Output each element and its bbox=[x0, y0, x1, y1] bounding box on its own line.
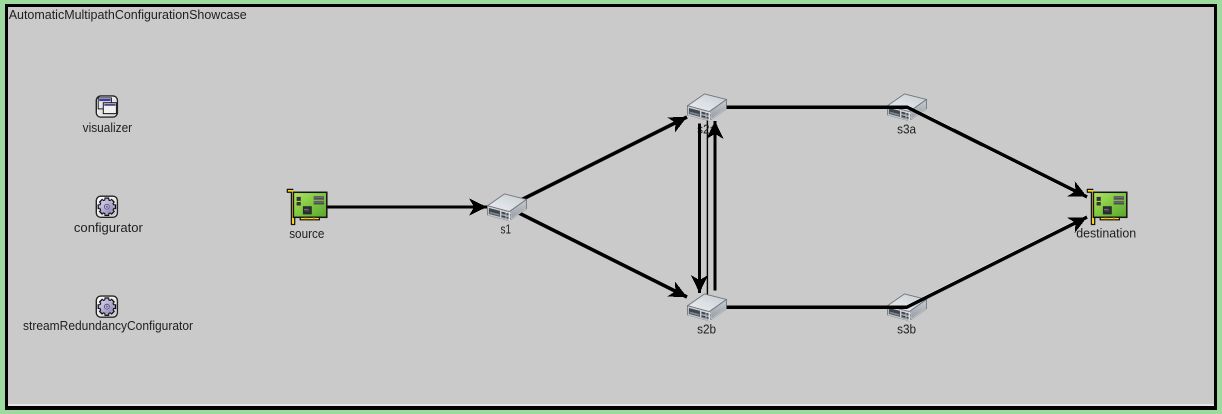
switch s3b (drawn under path lines) bbox=[888, 294, 927, 321]
svg-text:streamRedundancyConfigurator: streamRedundancyConfigurator bbox=[23, 319, 193, 333]
switch s2b bbox=[688, 294, 727, 321]
svg-text:destination: destination bbox=[1076, 227, 1136, 241]
arrow s1 to s2b bbox=[507, 207, 687, 297]
svg-text:configurator: configurator bbox=[74, 221, 143, 235]
switch s1 bbox=[488, 194, 527, 221]
arrow source to s1 bbox=[307, 205, 487, 208]
svg-text:s1: s1 bbox=[501, 223, 512, 237]
host source (card icon) bbox=[287, 189, 327, 224]
wire link s2a-s2b (thin) bbox=[706, 118, 708, 296]
switch s3a (drawn under path lines) bbox=[888, 94, 927, 121]
svg-text:s3b: s3b bbox=[897, 323, 916, 337]
visualizer icon bbox=[96, 96, 117, 117]
arrow s1 to s2a bbox=[507, 117, 687, 207]
path s2a via s3a to destination bbox=[707, 107, 1087, 197]
configurator gear icon bbox=[94, 194, 120, 220]
switch s2a bbox=[688, 94, 727, 121]
host destination (card icon) bbox=[1087, 189, 1127, 224]
svg-text:AutomaticMultipathConfiguratio: AutomaticMultipathConfigurationShowcase bbox=[9, 8, 247, 22]
svg-text:s3a: s3a bbox=[897, 123, 916, 137]
svg-text:source: source bbox=[289, 227, 324, 241]
path s2b via s3b to destination bbox=[707, 217, 1087, 307]
streamRedundancyConfigurator gear icon bbox=[94, 294, 120, 320]
svg-text:visualizer: visualizer bbox=[83, 121, 133, 135]
arrow s2b up to s2a bbox=[713, 121, 716, 291]
arrow s2a down to s2b bbox=[698, 124, 701, 294]
svg-text:s2b: s2b bbox=[697, 323, 716, 337]
